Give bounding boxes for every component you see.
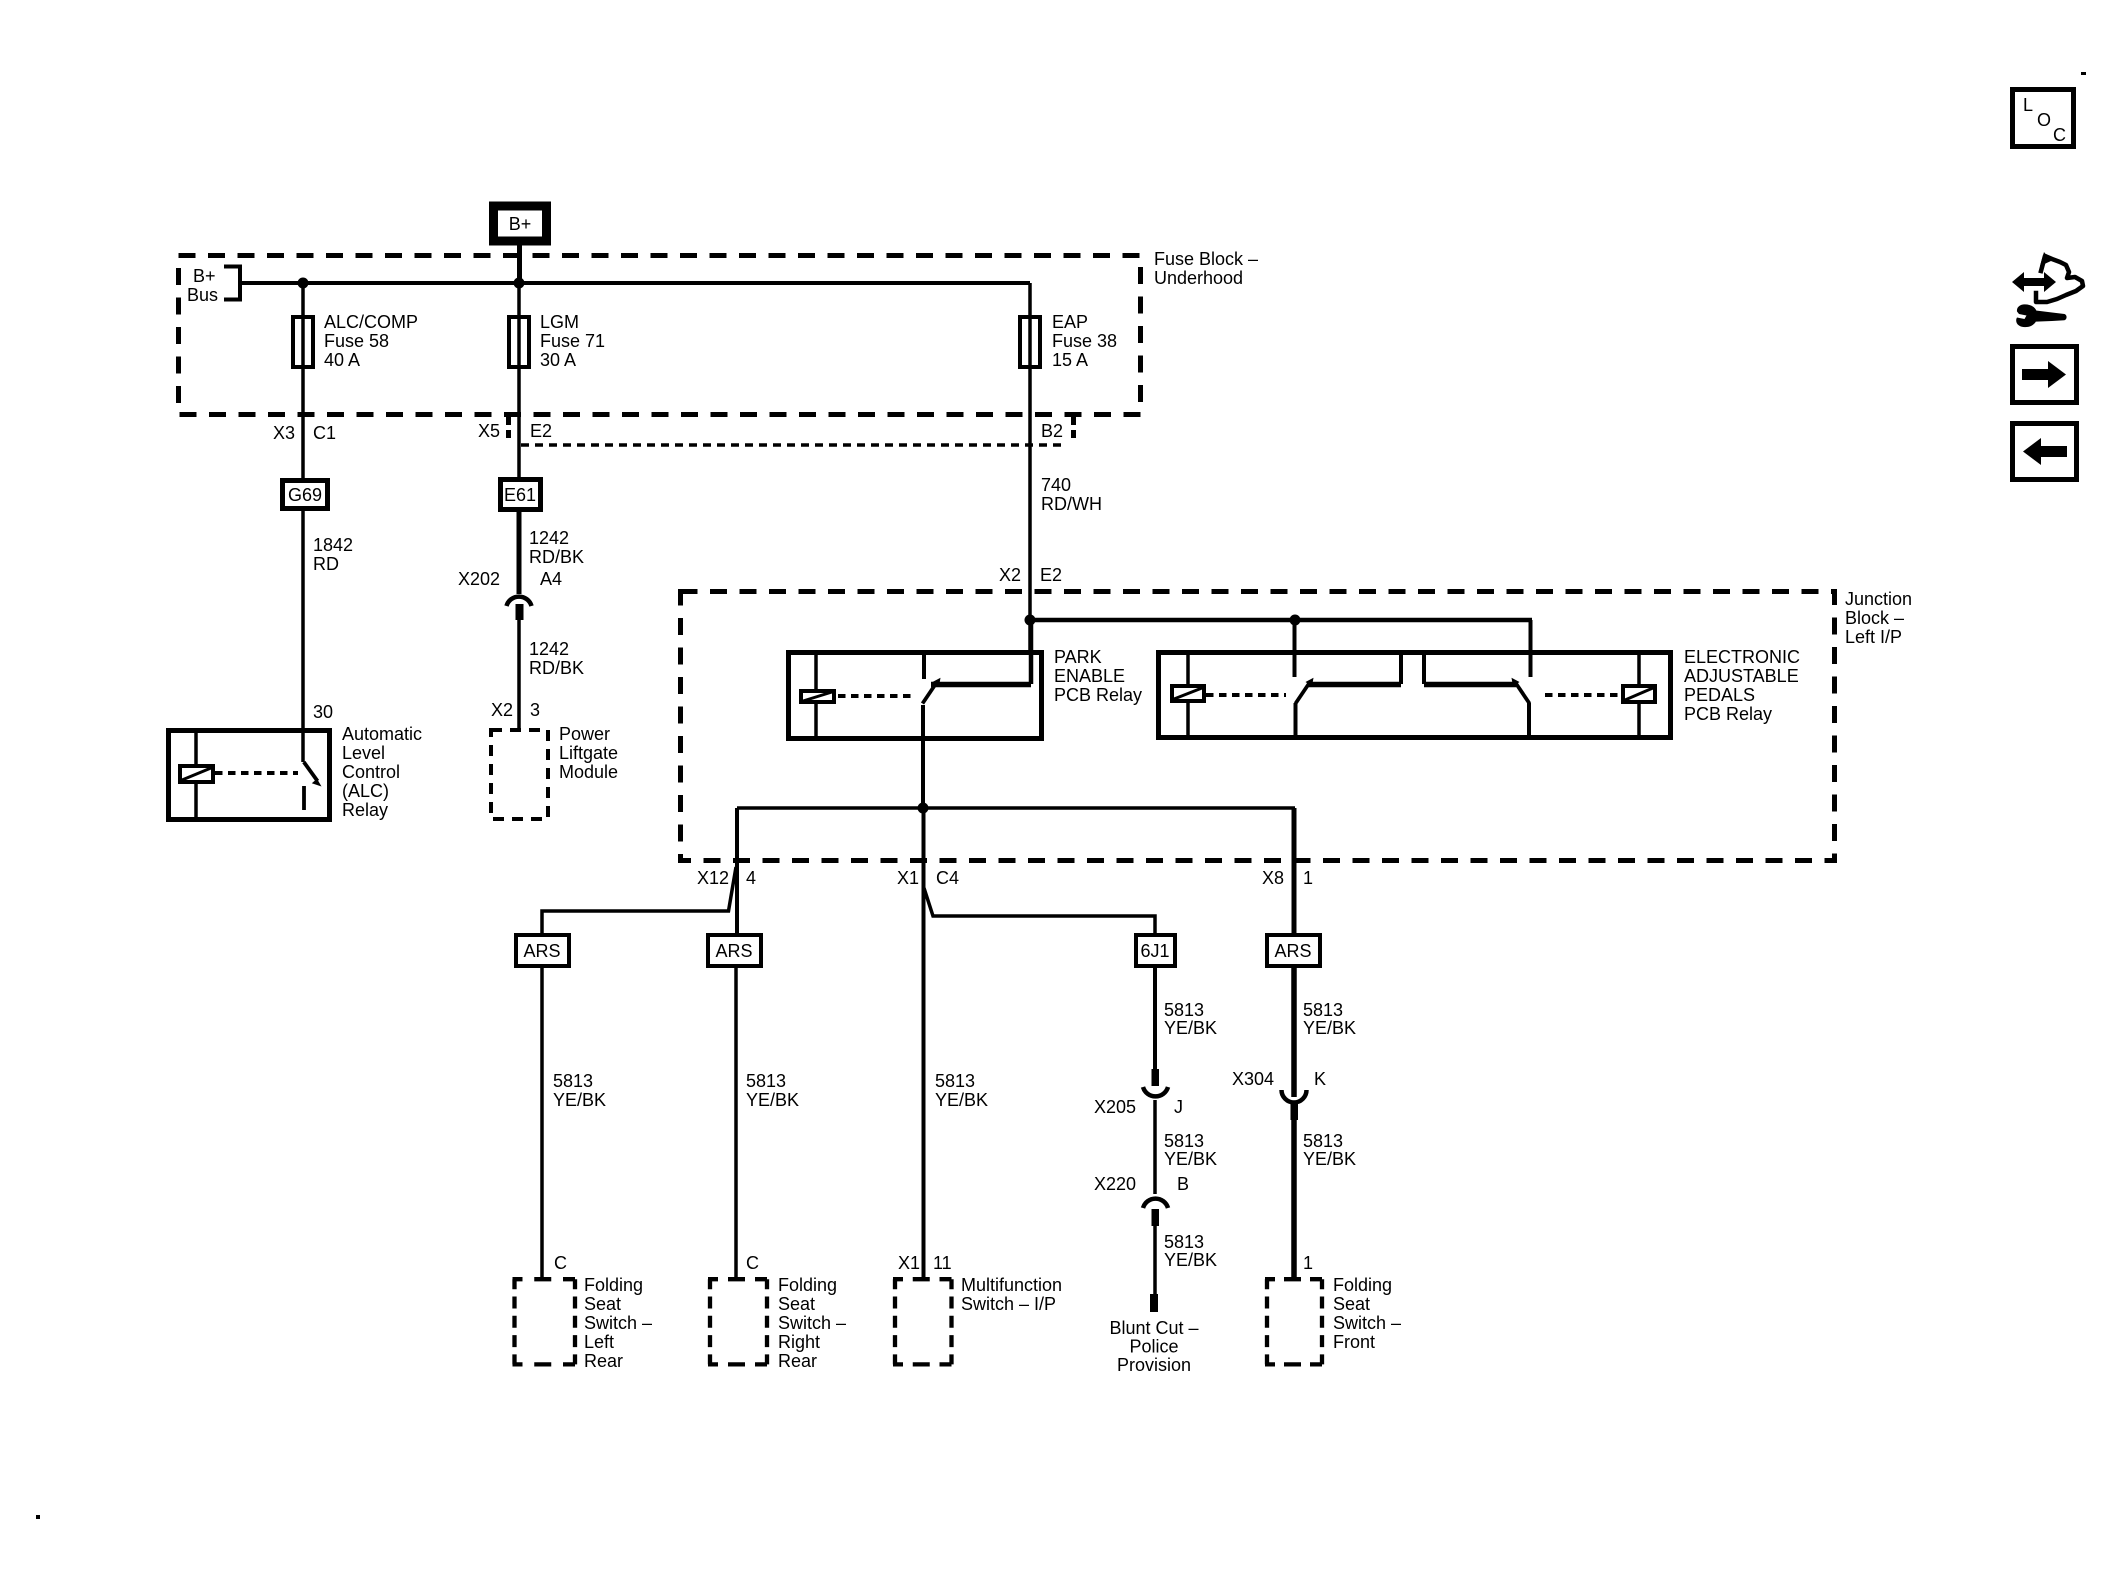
- svg-text:B+: B+: [509, 214, 532, 234]
- terminal blunt cut: [1150, 1294, 1158, 1312]
- svg-text:Junction: Junction: [1845, 589, 1912, 609]
- icon adjust arrows and wrench: [2012, 252, 2083, 327]
- svg-text:A4: A4: [540, 569, 562, 589]
- relay EAP left coil link dashed: [1206, 693, 1286, 697]
- svg-text:Folding: Folding: [1333, 1275, 1392, 1295]
- wire X12 column: [735, 808, 739, 933]
- wire 1842 RD: [301, 509, 305, 762]
- svg-text:RD/WH: RD/WH: [1041, 494, 1102, 514]
- relay PARK contact bar: [931, 682, 1031, 688]
- svg-text:LGM: LGM: [540, 312, 579, 332]
- relay PARK coil: [801, 691, 834, 702]
- svg-text:Switch –: Switch –: [1333, 1313, 1401, 1333]
- svg-text:Rear: Rear: [584, 1351, 623, 1371]
- svg-text:Automatic: Automatic: [342, 724, 422, 744]
- junction dot feed left: [1025, 615, 1036, 626]
- label 1242 RD/BK lower: [529, 639, 584, 678]
- pin label B2: [1041, 417, 1074, 441]
- svg-text:PARK: PARK: [1054, 647, 1102, 667]
- svg-text:X1: X1: [897, 868, 919, 888]
- icon LOC box: [2013, 90, 2074, 147]
- pin label X1 11: [898, 1253, 952, 1273]
- svg-text:Block –: Block –: [1845, 608, 1904, 628]
- junction dot bus-fuse58: [298, 278, 309, 289]
- relay EAP left coil feed lines: [1186, 652, 1190, 737]
- svg-text:30 A: 30 A: [540, 350, 576, 370]
- svg-text:X202: X202: [458, 569, 500, 589]
- label 5813 YE/BK front upper: [1303, 1000, 1356, 1038]
- svg-text:L: L: [2023, 95, 2033, 115]
- relay EAP switch1 pivot line: [1294, 703, 1298, 737]
- label PARK ENABLE PCB Relay: [1054, 647, 1142, 705]
- dashed connector line X5 to B2: [521, 443, 1062, 447]
- inline connector X205 J: [1094, 1069, 1183, 1117]
- svg-text:Level: Level: [342, 743, 385, 763]
- svg-text:YE/BK: YE/BK: [1303, 1149, 1356, 1169]
- svg-text:Fuse 58: Fuse 58: [324, 331, 389, 351]
- svg-text:Module: Module: [559, 762, 618, 782]
- svg-text:X5: X5: [478, 421, 500, 441]
- svg-text:X2: X2: [491, 700, 513, 720]
- svg-text:K: K: [1314, 1069, 1326, 1089]
- wire X1 column: [922, 808, 926, 1277]
- svg-text:X8: X8: [1262, 868, 1284, 888]
- pin label X5 E2: [478, 417, 552, 441]
- svg-text:5813: 5813: [553, 1071, 593, 1091]
- svg-text:1: 1: [1303, 1253, 1313, 1273]
- svg-text:30: 30: [313, 702, 333, 722]
- label Folding Seat Switch Front: [1333, 1275, 1401, 1352]
- node B+ Bus: [187, 266, 240, 305]
- wire B+ bus horizontal: [240, 281, 1030, 285]
- svg-text:X3: X3: [273, 423, 295, 443]
- pin label X1 C4: [897, 868, 959, 888]
- pin label X2 3: [491, 700, 540, 720]
- wire ARS front to X304: [1291, 968, 1297, 1097]
- svg-text:X2: X2: [999, 565, 1021, 585]
- svg-text:PEDALS: PEDALS: [1684, 685, 1755, 705]
- svg-text:5813: 5813: [1303, 1000, 1343, 1020]
- inline connector X202 A4: [458, 569, 562, 620]
- svg-text:Switch –: Switch –: [778, 1313, 846, 1333]
- svg-text:ARS: ARS: [523, 941, 560, 961]
- pin label X12 4: [697, 868, 756, 888]
- label Multifunction Switch I/P: [961, 1275, 1062, 1314]
- relay EAP box: [1159, 653, 1671, 738]
- wire B+ to bus: [517, 245, 522, 284]
- wire 1242 RD/BK lower: [517, 620, 521, 730]
- connector 6J1: [1136, 935, 1175, 966]
- fuse F38: [1020, 317, 1040, 367]
- relay PARK coil feed lines: [814, 652, 818, 738]
- svg-text:RD: RD: [313, 554, 339, 574]
- svg-text:Switch –: Switch –: [584, 1313, 652, 1333]
- pin label X3 C1: [273, 423, 336, 443]
- svg-text:YE/BK: YE/BK: [1164, 1018, 1217, 1038]
- wire 5813 left rear: [540, 968, 544, 1277]
- wire X304 to seat front: [1291, 1120, 1297, 1277]
- label Automatic Level Control ALC Relay: [342, 724, 422, 820]
- svg-text:X304: X304: [1232, 1069, 1274, 1089]
- svg-text:3: 3: [530, 700, 540, 720]
- wire X205 to X220: [1153, 1100, 1157, 1194]
- svg-text:1242: 1242: [529, 528, 569, 548]
- relay PARK fixed contact: [922, 652, 926, 679]
- relay EAP switch2 armature: [1512, 678, 1530, 704]
- svg-text:Multifunction: Multifunction: [961, 1275, 1062, 1295]
- svg-text:Fuse Block –: Fuse Block –: [1154, 249, 1258, 269]
- svg-text:ADJUSTABLE: ADJUSTABLE: [1684, 666, 1799, 686]
- svg-text:C: C: [554, 1253, 567, 1273]
- relay EAP switch2 pivot line: [1527, 703, 1531, 737]
- svg-text:5813: 5813: [1164, 1131, 1204, 1151]
- svg-text:X220: X220: [1094, 1174, 1136, 1194]
- icon arrow left box: [2013, 424, 2077, 480]
- svg-text:Liftgate: Liftgate: [559, 743, 618, 763]
- svg-text:5813: 5813: [1164, 1000, 1204, 1020]
- relay EAP left coil: [1172, 686, 1204, 701]
- svg-text:Fuse 38: Fuse 38: [1052, 331, 1117, 351]
- speck bottom left: [36, 1515, 40, 1519]
- svg-text:ELECTRONIC: ELECTRONIC: [1684, 647, 1800, 667]
- fuse F58: [293, 317, 313, 367]
- label Power Liftgate Module: [559, 724, 618, 782]
- inline connector X220 B: [1094, 1174, 1189, 1226]
- wire 6J1 branch: [924, 888, 1155, 933]
- svg-text:Underhood: Underhood: [1154, 268, 1243, 288]
- label 5813 YE/BK right rear: [746, 1071, 799, 1110]
- junction dot distribution: [918, 803, 929, 814]
- relay EAP switch2 feed: [1529, 620, 1533, 677]
- wire EAP bar1 riser: [1399, 652, 1403, 684]
- label Folding Seat Switch Left Rear: [584, 1275, 652, 1371]
- svg-text:4: 4: [746, 868, 756, 888]
- svg-text:J: J: [1174, 1097, 1183, 1117]
- svg-text:G69: G69: [288, 485, 322, 505]
- svg-text:C4: C4: [936, 868, 959, 888]
- speck top right: [2081, 72, 2086, 75]
- pin label X2 E2: [999, 565, 1062, 585]
- switch Folding Seat Front dashed box: [1265, 1279, 1324, 1364]
- icon arrow right box: [2013, 347, 2077, 403]
- connector ARS front: [1267, 935, 1320, 966]
- svg-text:Seat: Seat: [584, 1294, 621, 1314]
- wire PARK bar to feed: [1029, 620, 1034, 684]
- svg-text:O: O: [2037, 110, 2051, 130]
- relay PARK armature: [923, 678, 941, 704]
- svg-text:EAP: EAP: [1052, 312, 1088, 332]
- svg-text:(ALC): (ALC): [342, 781, 389, 801]
- module Power Liftgate dashed box: [491, 730, 548, 819]
- svg-text:Blunt Cut –: Blunt Cut –: [1109, 1318, 1198, 1338]
- connector E61: [501, 480, 541, 510]
- svg-text:C1: C1: [313, 423, 336, 443]
- svg-text:Power: Power: [559, 724, 610, 744]
- wire 6J1 to X205: [1153, 968, 1157, 1070]
- wire X220 to blunt cut: [1153, 1226, 1157, 1295]
- svg-text:Right: Right: [778, 1332, 820, 1352]
- svg-text:5813: 5813: [1303, 1131, 1343, 1151]
- relay ALC fixed contact: [302, 786, 306, 810]
- svg-text:YE/BK: YE/BK: [1164, 1149, 1217, 1169]
- svg-text:Fuse 71: Fuse 71: [540, 331, 605, 351]
- svg-text:B: B: [1177, 1174, 1189, 1194]
- svg-text:YE/BK: YE/BK: [746, 1090, 799, 1110]
- wire E61 to X202: [517, 509, 522, 594]
- switch Folding Seat Left Rear dashed box: [513, 1279, 578, 1364]
- svg-text:Bus: Bus: [187, 285, 218, 305]
- svg-text:YE/BK: YE/BK: [553, 1090, 606, 1110]
- label ELECTRONIC ADJUSTABLE PEDALS PCB Relay: [1684, 647, 1800, 724]
- svg-text:ARS: ARS: [715, 941, 752, 961]
- label Blunt Cut Police Provision: [1109, 1318, 1198, 1375]
- inline connector X304 K: [1232, 1069, 1326, 1120]
- label 5813 YE/BK front lower: [1303, 1131, 1356, 1169]
- svg-text:ENABLE: ENABLE: [1054, 666, 1125, 686]
- relay ALC armature: [304, 762, 318, 781]
- svg-text:C: C: [2053, 125, 2066, 145]
- svg-text:1242: 1242: [529, 639, 569, 659]
- svg-text:PCB Relay: PCB Relay: [1054, 685, 1142, 705]
- svg-text:E61: E61: [504, 485, 536, 505]
- svg-text:X1: X1: [898, 1253, 920, 1273]
- relay EAP right coil: [1623, 686, 1655, 702]
- wire fuse38 column: [1028, 283, 1032, 652]
- wire fuse58 column: [301, 283, 305, 478]
- label 5813 YE/BK multifunction: [935, 1071, 988, 1110]
- svg-text:5813: 5813: [1164, 1232, 1204, 1252]
- svg-text:C: C: [746, 1253, 759, 1273]
- svg-text:Police: Police: [1129, 1337, 1178, 1357]
- relay EAP switch1 fixed contact: [1293, 620, 1297, 677]
- svg-text:B2: B2: [1041, 421, 1063, 441]
- svg-text:RD/BK: RD/BK: [529, 658, 584, 678]
- svg-text:X12: X12: [697, 868, 729, 888]
- relay EAP contact bar1: [1308, 682, 1401, 688]
- svg-text:Folding: Folding: [584, 1275, 643, 1295]
- svg-text:Control: Control: [342, 762, 400, 782]
- connector ARS right rear: [708, 935, 761, 966]
- label Junction Block Left I/P: [1845, 589, 1912, 647]
- wire 5813 right rear: [734, 968, 738, 1277]
- junction block left I/P dashed box: [681, 592, 1835, 861]
- svg-text:Provision: Provision: [1117, 1355, 1191, 1375]
- svg-text:E2: E2: [530, 421, 552, 441]
- relay ALC coil link dashed: [215, 771, 298, 775]
- relay ALC coil: [180, 766, 213, 782]
- svg-text:740: 740: [1041, 475, 1071, 495]
- label Fuse Block Underhood: [1154, 249, 1258, 288]
- wire X8 branch down: [1292, 808, 1297, 933]
- label 5813 YE/BK blunt: [1164, 1232, 1217, 1270]
- junction dot feed mid: [1290, 615, 1301, 626]
- label 1842 RD: [313, 535, 353, 574]
- svg-text:Seat: Seat: [778, 1294, 815, 1314]
- label 5813 YE/BK left rear: [553, 1071, 606, 1110]
- power symbol B+: [494, 206, 547, 241]
- svg-text:B+: B+: [193, 266, 216, 286]
- label 5813 YE/BK 6J1: [1164, 1000, 1217, 1038]
- svg-text:5813: 5813: [746, 1071, 786, 1091]
- connector G69: [283, 481, 328, 509]
- svg-text:ARS: ARS: [1274, 941, 1311, 961]
- wire junction block feed: [1030, 618, 1532, 623]
- label LGM Fuse 71 30 A: [540, 312, 605, 370]
- fuse block underhood dashed box: [179, 256, 1141, 415]
- wire fuse71 column: [517, 283, 521, 479]
- label ALC/COMP Fuse 58 40 A: [324, 312, 418, 370]
- connector ARS left rear: [516, 935, 569, 966]
- relay EAP right coil link dashed: [1545, 693, 1623, 697]
- svg-text:YE/BK: YE/BK: [1303, 1018, 1356, 1038]
- svg-text:RD/BK: RD/BK: [529, 547, 584, 567]
- svg-text:Folding: Folding: [778, 1275, 837, 1295]
- svg-text:X205: X205: [1094, 1097, 1136, 1117]
- svg-text:E2: E2: [1040, 565, 1062, 585]
- svg-text:40 A: 40 A: [324, 350, 360, 370]
- svg-text:Switch – I/P: Switch – I/P: [961, 1294, 1056, 1314]
- pin label X8 1: [1262, 868, 1313, 888]
- svg-text:YE/BK: YE/BK: [935, 1090, 988, 1110]
- relay PARK ENABLE PCB box: [789, 653, 1042, 739]
- svg-text:1842: 1842: [313, 535, 353, 555]
- label 740 RD/WH: [1041, 475, 1102, 514]
- wire distribution horizontal: [737, 806, 1295, 810]
- relay EAP switch1 armature: [1296, 678, 1314, 704]
- wire EAP bar2 riser: [1422, 652, 1426, 684]
- switch Folding Seat Right Rear dashed box: [708, 1279, 769, 1364]
- svg-text:Left I/P: Left I/P: [1845, 627, 1902, 647]
- svg-text:Front: Front: [1333, 1332, 1375, 1352]
- relay EAP right coil feed lines: [1637, 652, 1641, 737]
- fuse F71: [509, 317, 529, 367]
- svg-text:6J1: 6J1: [1140, 941, 1169, 961]
- switch Multifunction dashed box: [893, 1279, 954, 1364]
- svg-text:15 A: 15 A: [1052, 350, 1088, 370]
- label 1242 RD/BK upper: [529, 528, 584, 567]
- label 5813 YE/BK mid: [1164, 1131, 1217, 1169]
- relay EAP contact bar2: [1424, 682, 1516, 688]
- junction dot bus-fuse71: [514, 278, 525, 289]
- relay ALC coil feed lines: [194, 730, 198, 817]
- svg-text:Rear: Rear: [778, 1351, 817, 1371]
- relay PARK coil link dashed: [838, 694, 916, 698]
- wire ARS left branch: [542, 867, 736, 933]
- svg-text:ALC/COMP: ALC/COMP: [324, 312, 418, 332]
- label Folding Seat Switch Right Rear: [778, 1275, 846, 1371]
- svg-text:5813: 5813: [935, 1071, 975, 1091]
- wire PARK pivot down: [921, 705, 925, 808]
- svg-text:11: 11: [933, 1253, 952, 1273]
- svg-text:Seat: Seat: [1333, 1294, 1370, 1314]
- svg-text:1: 1: [1303, 868, 1313, 888]
- svg-text:Left: Left: [584, 1332, 614, 1352]
- relay ALC box: [169, 731, 330, 820]
- svg-text:YE/BK: YE/BK: [1164, 1250, 1217, 1270]
- label EAP Fuse 38 15 A: [1052, 312, 1117, 370]
- svg-text:Relay: Relay: [342, 800, 388, 820]
- svg-text:PCB Relay: PCB Relay: [1684, 704, 1772, 724]
